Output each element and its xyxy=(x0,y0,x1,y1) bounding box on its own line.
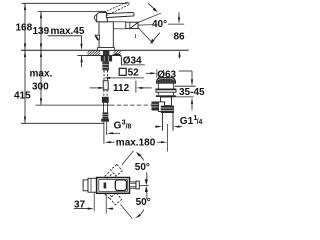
dim max.180 xyxy=(105,141,111,143)
arrows dim line x25 xyxy=(24,3,42,123)
lever base rounded square xyxy=(115,180,126,191)
G1 1/4 tube arrows xyxy=(155,126,158,128)
neck xyxy=(161,97,172,106)
top view aerator cap xyxy=(83,180,88,191)
top view spout xyxy=(88,178,97,192)
faucet body side view xyxy=(99,22,113,48)
dashed lever rotated down: diamond xyxy=(105,193,122,205)
escutcheon cylinder xyxy=(158,83,173,89)
svg-text:168: 168 xyxy=(16,23,33,34)
50deg arc lower xyxy=(145,190,147,199)
lever raised dashed xyxy=(104,2,130,16)
dimension line 139/max300 xyxy=(40,12,42,105)
arrows dim line x41 xyxy=(40,12,42,19)
threaded shank xyxy=(102,61,109,70)
40 degree fan lines xyxy=(138,13,161,43)
junction block xyxy=(102,97,109,103)
deck hatching left xyxy=(85,50,104,55)
side valve body xyxy=(159,102,165,112)
lever blade xyxy=(106,13,134,18)
415 bottom ref line xyxy=(21,122,104,124)
centerline xyxy=(139,184,149,186)
svg-text:52: 52 xyxy=(128,67,140,78)
svg-text:415: 415 xyxy=(14,91,31,102)
small tick xyxy=(135,34,137,38)
dim 37 xyxy=(93,193,95,212)
hidden tube dashed 2 xyxy=(104,90,107,97)
label square 52 xyxy=(119,68,126,75)
label D34 xyxy=(112,53,118,55)
top view body xyxy=(97,178,130,194)
faucet base plate xyxy=(97,48,114,51)
hose lines xyxy=(103,122,105,144)
hose connector xyxy=(103,81,108,90)
dim 112 xyxy=(90,87,101,89)
dimension line 168/415 xyxy=(24,3,26,123)
lock nut xyxy=(161,106,174,113)
svg-text:112: 112 xyxy=(113,83,130,94)
svg-text:Ø34: Ø34 xyxy=(123,55,142,66)
lever pivot boss xyxy=(97,13,108,22)
ref line top lever level xyxy=(22,2,128,4)
spout outlet nub xyxy=(95,35,99,40)
G3/8 thread xyxy=(103,112,109,118)
dim 86 xyxy=(178,12,180,17)
svg-text:/4: /4 xyxy=(197,119,203,126)
hidden tube dashed xyxy=(104,70,108,80)
escutcheon flange disc xyxy=(156,89,176,92)
end cap xyxy=(101,119,109,122)
max300 dashed leader arrowhead xyxy=(152,104,158,106)
side valve knob knurled xyxy=(152,102,159,111)
svg-text:50°: 50° xyxy=(135,162,150,173)
lever arm top view xyxy=(130,182,137,188)
cartridge mark xyxy=(104,183,107,189)
svg-text:max.45: max.45 xyxy=(51,26,85,37)
svg-text:G1: G1 xyxy=(180,116,194,127)
lines body to lever-end box xyxy=(113,22,126,29)
radial line upper xyxy=(122,151,133,165)
escutcheon dome (front view) xyxy=(157,78,176,83)
svg-text:/8: /8 xyxy=(126,124,132,131)
40deg leader to 86 ref xyxy=(168,23,184,25)
50deg arc upper xyxy=(138,154,144,161)
svg-text:40°: 40° xyxy=(152,19,167,30)
ref line spout top level xyxy=(38,11,106,13)
neck upper xyxy=(158,92,173,95)
rotation arrow upper xyxy=(148,3,156,10)
svg-text:Ø63: Ø63 xyxy=(157,69,176,80)
tube axis extension xyxy=(167,124,169,152)
mounting nut xyxy=(101,56,112,62)
svg-text:86: 86 xyxy=(174,31,186,42)
dim 35-45 xyxy=(191,71,193,80)
svg-text:139: 139 xyxy=(33,26,50,37)
radial line lower xyxy=(120,204,132,219)
lever-end box with diagonal xyxy=(126,22,138,28)
base plate dark xyxy=(156,95,176,97)
max300 ref dashed continuation xyxy=(110,104,153,106)
deck hatching right xyxy=(111,50,124,55)
svg-text:50°: 50° xyxy=(136,197,151,208)
drain tube xyxy=(162,113,173,131)
svg-text:max.180: max.180 xyxy=(116,138,156,149)
deck bottom line xyxy=(77,55,121,57)
svg-text:G: G xyxy=(114,121,122,132)
tube xyxy=(103,103,107,113)
svg-text:300: 300 xyxy=(32,82,49,93)
lever end cap top view xyxy=(136,181,139,189)
rotation arrow lower xyxy=(153,33,160,42)
max300 bottom ref line xyxy=(36,104,111,106)
shank through deck xyxy=(103,50,109,55)
dashed lever rotated up: diamond xyxy=(105,164,123,178)
svg-text:max.: max. xyxy=(30,69,53,80)
deck top line xyxy=(21,49,189,51)
